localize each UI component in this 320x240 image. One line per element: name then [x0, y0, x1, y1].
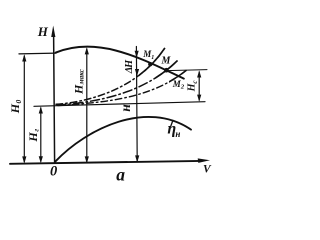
network curve 2 solid tail through M: [57, 61, 177, 105]
horizontal line through M: [167, 70, 207, 71]
dimension Hc vertical line (right): [198, 72, 200, 100]
label H0 (rotated): [8, 100, 23, 115]
label Hg (rotated): [26, 129, 40, 143]
svg-text:H: H: [37, 24, 49, 39]
network curve 1 dash-dot: [56, 49, 165, 105]
svg-text:0: 0: [50, 163, 57, 179]
arrow onto pump curve: [135, 51, 139, 58]
eta label tick: [171, 120, 173, 126]
network curve 2 dash-dot: [57, 61, 177, 105]
x-axis V: [10, 161, 201, 164]
point M1: [148, 62, 152, 66]
Hg static head line: [34, 102, 205, 107]
svg-text:ΔH: ΔH: [124, 59, 135, 74]
network curve 3 solid tail through M2: [58, 71, 186, 106]
point M: [164, 68, 169, 73]
arrow onto x-axis: [135, 155, 139, 162]
y-axis arrowhead: [51, 26, 55, 38]
svg-text:M: M: [161, 56, 172, 67]
label dH (rotated): [124, 59, 135, 74]
svg-text:V: V: [203, 164, 212, 176]
label Hmax (rotated): [71, 68, 85, 95]
pump curve H(V): [56, 47, 184, 79]
network curve 1 solid tail through M1: [56, 49, 165, 105]
network curve 3 dash-dot: [58, 71, 186, 106]
svg-text:a: a: [116, 165, 125, 185]
efficiency curve eta_n: [55, 117, 191, 162]
arrow onto network curve 1: [135, 69, 139, 76]
dimension H0 vertical line: [23, 56, 25, 162]
label Hc (rotated): [187, 81, 200, 93]
y-axis H: [54, 33, 55, 162]
dimension Hmax vertical line: [86, 49, 88, 162]
dimension dH / operating vertical line: [135, 47, 138, 162]
label n (rotated, below Hg line): [118, 104, 133, 112]
x-axis arrowhead: [198, 158, 210, 163]
H0 level line (top): [19, 52, 56, 55]
svg-text:н: н: [118, 104, 133, 112]
dimension Hg vertical line: [40, 108, 42, 161]
